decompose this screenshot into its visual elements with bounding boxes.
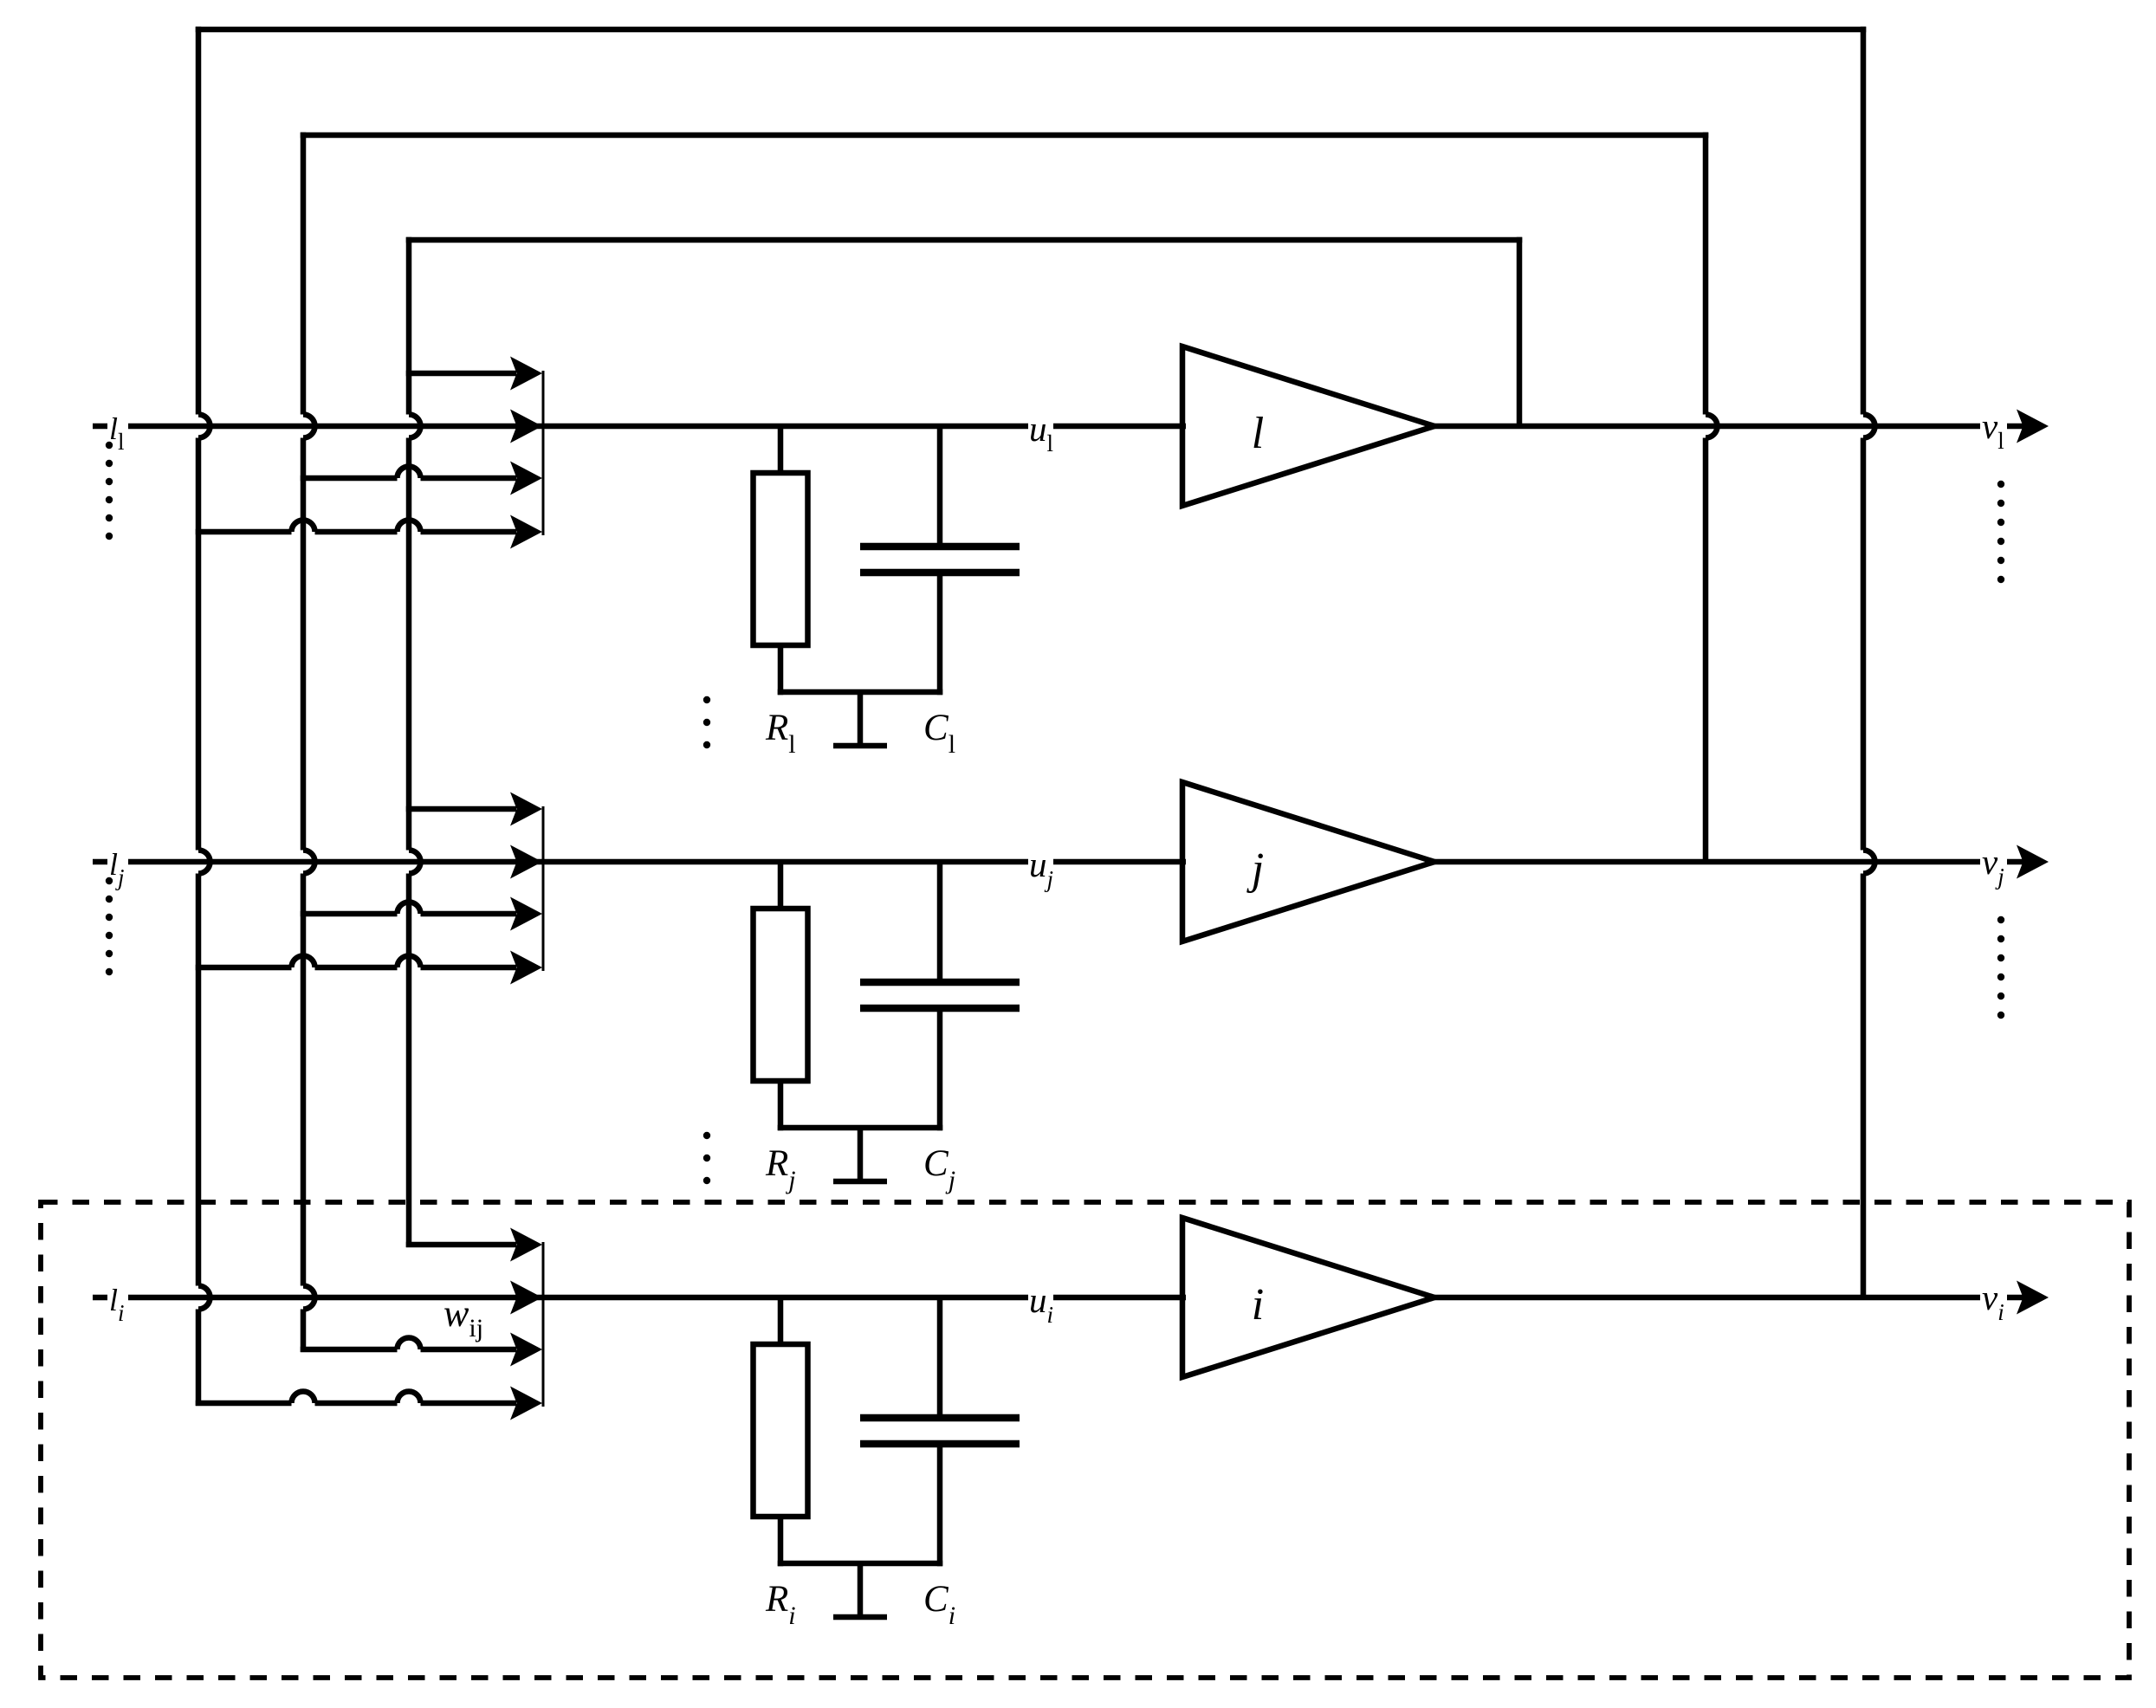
wire right vertical of loop A (v_i) — [1863, 27, 1875, 1300]
wire input line lj row 2 — [93, 859, 543, 865]
node ll input label — [109, 411, 125, 455]
svg-text:i: i — [1252, 1280, 1264, 1330]
wire tap from v_i bus into neuron l (arrow) — [196, 515, 542, 549]
node ellipsis below v_j — [1997, 916, 2004, 1019]
resistor Ri — [754, 1297, 808, 1566]
wire feedback loop A top (v_i) — [196, 27, 1867, 33]
node uj label — [1029, 844, 1053, 892]
resistor Rj — [754, 862, 808, 1130]
node li input label — [109, 1283, 125, 1326]
op-amp amplifier l — [1182, 346, 1434, 506]
node ellipsis between neurons (left of R_j) — [703, 1132, 710, 1184]
node summing junction bar row 1 — [542, 371, 545, 535]
wire tap from v_j bus into neuron j (arrow) — [301, 897, 542, 931]
wire tap from v_1 bus into neuron i (arrow) — [406, 1228, 542, 1262]
wire input arrow into summing junction row 2 — [510, 845, 542, 879]
node vj output label and arrow — [1982, 842, 2049, 890]
node Rj value label — [765, 1143, 796, 1194]
wire output v_1 from amplifier l — [1431, 424, 2024, 430]
ground below Rl/Cl — [833, 692, 887, 746]
node vi output label and arrow — [1982, 1278, 2049, 1325]
node ui label — [1029, 1280, 1053, 1328]
wire tap from v_i bus into neuron i (arrow) — [196, 1387, 542, 1420]
capacitor Cl — [860, 426, 1020, 695]
wire joining Ri and Ci bottoms — [778, 1561, 943, 1567]
op-amp amplifier j — [1182, 782, 1434, 941]
wire tap from v_j bus into neuron l (arrow) — [301, 462, 542, 495]
wire input line ll row 1 — [93, 424, 543, 430]
node summing junction bar row 3 — [542, 1242, 545, 1407]
dashed box around neuron i — [41, 1202, 2129, 1678]
capacitor Cj — [860, 862, 1020, 1130]
node w_ij weight label — [444, 1292, 483, 1342]
wire output v_j from amplifier j — [1431, 859, 2024, 865]
wire joining Rl and Cl bottoms — [778, 689, 943, 695]
node ellipsis below l_j — [106, 877, 113, 975]
node ellipsis below v_1 — [1997, 481, 2004, 583]
wire right vertical of loop C (v_1) — [1517, 237, 1523, 429]
op-amp amplifier i — [1182, 1218, 1434, 1377]
wire tap from v_1 bus into neuron l (arrow) — [406, 357, 542, 391]
wire ui net from summing bar to amplifier — [543, 1295, 1186, 1301]
wire input arrow into summing junction row 3 — [510, 1281, 542, 1315]
node Rl value label — [765, 708, 796, 759]
node ellipsis between neurons (left of R_1) — [703, 696, 710, 748]
wire output v_i from amplifier i — [1431, 1295, 2024, 1301]
wire right vertical of loop B (v_j) — [1706, 133, 1718, 864]
wire uj net from summing bar to amplifier — [543, 859, 1186, 865]
node summing junction bar row 2 — [542, 806, 545, 971]
capacitor Ci — [860, 1297, 1020, 1566]
node ul label — [1029, 409, 1053, 456]
wire tap from v_i bus into neuron j (arrow) — [196, 951, 542, 985]
wire left vertical bus 3 (carries v_1) — [409, 237, 421, 1247]
wire left vertical bus 2 (carries v_j) — [303, 133, 315, 1352]
wire tap from v_1 bus into neuron j (arrow) — [406, 793, 542, 826]
node Ri value label — [765, 1579, 796, 1630]
node vl output label and arrow — [1982, 406, 2049, 454]
wire ul net from summing bar to amplifier — [543, 424, 1186, 430]
node Ci value label — [923, 1579, 955, 1630]
wire feedback loop B top (v_j) — [301, 133, 1709, 139]
svg-text:l: l — [1252, 409, 1264, 458]
wire left vertical bus 1 (carries v_i) — [198, 27, 210, 1406]
wire input arrow into summing junction row 1 — [510, 410, 542, 443]
ground below Ri/Ci — [833, 1563, 887, 1617]
wire input line li row 3 — [93, 1295, 543, 1301]
node ellipsis below l_1 — [106, 442, 113, 540]
node Cl value label — [923, 708, 955, 759]
node Cj value label — [923, 1143, 955, 1194]
node lj input label — [109, 847, 125, 890]
ground below Rj/Cj — [833, 1128, 887, 1181]
resistor Rl — [754, 426, 808, 695]
wire feedback loop C top (v_1) — [406, 237, 1523, 243]
wire joining Rj and Cj bottoms — [778, 1125, 943, 1131]
wire tap from v_j bus into neuron i (arrow) — [301, 1333, 542, 1367]
